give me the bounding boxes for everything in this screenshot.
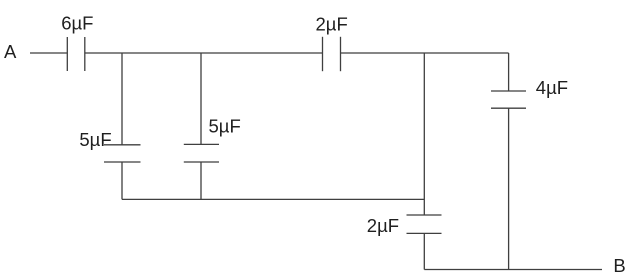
svg-text:5µF: 5µF [209,115,241,136]
svg-text:2µF: 2µF [316,14,348,35]
wire top middle segment [85,52,323,54]
svg-text:6µF: 6µF [61,13,93,34]
capacitor C4 2uF top plate [407,214,442,216]
capacitor C5 5uF bottom plate [104,161,141,163]
svg-text:4µF: 4µF [536,77,568,98]
capacitor C3 4uF top plate [491,90,526,92]
capacitor C6 5uF top plate [184,143,219,145]
wire C3 bottom to bottom rail [508,108,510,269]
wire middle rail [122,198,424,200]
capacitor C6 5uF bottom plate [184,161,219,163]
capacitor C4 2uF bottom plate [407,232,442,234]
wire C6 bottom lead [200,162,202,199]
wire right 5uF branch down [200,53,202,144]
svg-text:2µF: 2µF [367,215,399,236]
svg-text:5µF: 5µF [79,129,111,150]
wire bottom rail to node B [424,269,602,271]
capacitor C2 2uF right plate [340,37,342,71]
svg-text:B: B [613,255,625,276]
wire C5 bottom lead [121,162,123,199]
wire left 5uF branch down [121,53,123,145]
capacitor C5 5uF top plate [104,144,141,146]
wire C4 bottom lead [423,233,425,269]
wire middle branch down at node x424 [423,53,425,215]
wire top right segment [341,52,509,54]
capacitor C1 6uF left plate [66,37,68,71]
capacitor C1 6uF right plate [84,37,86,71]
capacitor C2 2uF left plate [322,37,324,71]
svg-text:A: A [4,41,17,62]
capacitor C3 4uF bottom plate [491,107,526,109]
node A lead wire [30,52,67,54]
wire right corner down to C3 [508,53,510,91]
